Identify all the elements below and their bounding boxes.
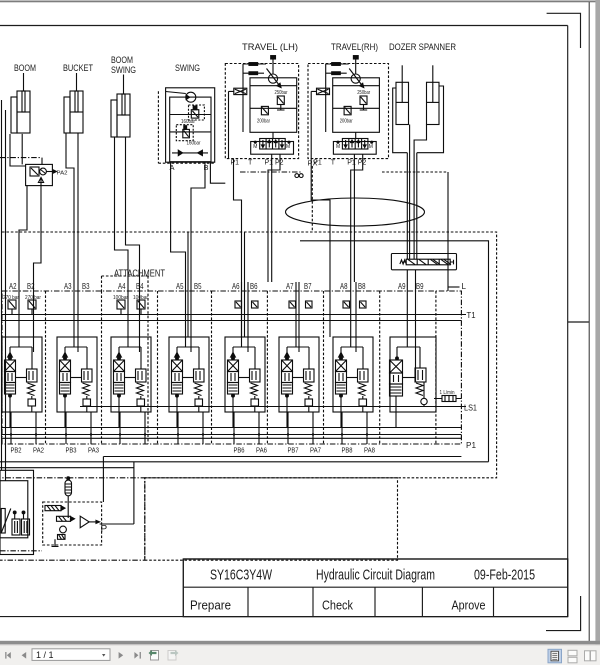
pilot line filter with arrow xyxy=(80,516,99,528)
svg-text:PA6: PA6 xyxy=(256,446,267,455)
parallel feed gallery xyxy=(2,320,461,322)
wire: bucket rod-side to A3 xyxy=(66,133,74,282)
svg-text:A3: A3 xyxy=(64,282,72,291)
svg-text:L: L xyxy=(462,282,467,291)
pilot accumulator capsule xyxy=(65,477,72,518)
boom cylinder xyxy=(11,73,30,133)
valve section 6 pilot drop lines xyxy=(234,412,259,444)
svg-text:P1: P1 xyxy=(466,441,477,450)
valve section 8 pilot drop lines xyxy=(342,412,367,444)
svg-text:PA2: PA2 xyxy=(33,446,44,455)
svg-text:B5: B5 xyxy=(194,282,202,291)
valve section 5 work-port drops xyxy=(186,282,192,352)
main pump outer box xyxy=(0,470,34,554)
wire: leak line L xyxy=(447,172,449,291)
svg-text:A9: A9 xyxy=(398,282,406,291)
anti-cavitation checks sections 6 7 8 xyxy=(235,301,258,308)
pilot strainer xyxy=(58,535,66,540)
valve section 3 work-port drops xyxy=(74,282,78,352)
valve section 7 body xyxy=(279,337,319,412)
valve section 6 spool xyxy=(228,347,256,428)
hydraulic tank ellipse xyxy=(286,198,425,226)
svg-text:PB3: PB3 xyxy=(66,446,77,455)
wire: spanner head-side port xyxy=(414,125,426,260)
valve section 6 body xyxy=(225,337,265,412)
tank return rail T1 xyxy=(2,314,466,316)
svg-text:200bar: 200bar xyxy=(257,119,270,125)
wire: pump outlet to valve bank xyxy=(100,462,134,524)
svg-text:LS1: LS1 xyxy=(464,404,478,413)
valve section 8 body xyxy=(333,337,373,412)
title block row divider xyxy=(183,586,567,588)
svg-text:B6: B6 xyxy=(250,282,258,291)
wire: bucket head-side to B3 xyxy=(77,133,79,282)
svg-text:P: P xyxy=(101,524,108,535)
valve section 9 spool xyxy=(390,347,421,428)
svg-text:PA7: PA7 xyxy=(310,446,321,455)
svg-text:PX: PX xyxy=(308,159,318,168)
wire: spanner rod-side port xyxy=(417,86,444,259)
wire: travel LH P1 to A7 xyxy=(271,154,273,282)
title block column dividers xyxy=(248,587,494,616)
wire: boom-swing head-side to B4 xyxy=(126,137,140,282)
valve section 9 compensator xyxy=(403,347,428,407)
valve section 3 compensator xyxy=(71,347,93,412)
valve section dashed dividers xyxy=(46,291,436,444)
valve bank solid boundary / pump pressure line xyxy=(300,241,489,462)
sheet inner frame top edge xyxy=(0,25,568,27)
wire: PX pilot dashed xyxy=(311,166,313,232)
valve section 2 compensator xyxy=(16,347,38,412)
valve section 4 work-port drops xyxy=(128,282,140,352)
wire: swing A to A5 xyxy=(171,162,186,282)
svg-text:250bar: 250bar xyxy=(357,90,370,96)
svg-text:M: M xyxy=(369,144,373,150)
main control valve dash-dot housing xyxy=(2,291,461,444)
valve section 5 body xyxy=(169,337,209,412)
toolbar continuous layout icon xyxy=(568,650,577,663)
sheet inner frame right edge xyxy=(567,26,569,617)
wire: pilot dash-dot stub xyxy=(0,550,42,552)
wire: swing B to B5 xyxy=(191,162,205,282)
svg-text:M: M xyxy=(286,144,290,150)
svg-text:T1: T1 xyxy=(467,311,477,320)
sheet zone tick right margin xyxy=(568,321,589,323)
wire: section 6 extra feed lines xyxy=(244,232,246,337)
valve section 8 compensator xyxy=(347,347,369,412)
svg-text:250bar: 250bar xyxy=(275,90,288,96)
wire: holding valve to B2 xyxy=(34,186,42,282)
svg-text:B8: B8 xyxy=(358,282,366,291)
toolbar prev-page button xyxy=(22,652,27,659)
valve section 2 work-port drops xyxy=(19,282,34,352)
svg-text:PB8: PB8 xyxy=(342,446,353,455)
svg-text:A6: A6 xyxy=(232,282,240,291)
wire: selector valve to section 9 xyxy=(407,270,415,382)
pilot piping dashed box xyxy=(145,478,398,560)
valve section 4 compensator xyxy=(125,347,147,412)
svg-text:T: T xyxy=(248,160,253,167)
wire: travel RH P1 to A8 xyxy=(353,154,355,282)
wire: boom-swing rod-side to A4 xyxy=(115,137,129,282)
toolbar first-page button xyxy=(5,652,11,659)
wire: bank bottom rail full width xyxy=(0,461,489,463)
valve section 8 work-port drops xyxy=(351,282,356,352)
center joint ports xyxy=(295,174,299,178)
wire: dozer head-side port xyxy=(409,125,411,260)
pilot gear pump xyxy=(60,526,67,533)
pump cartridge 2 xyxy=(22,511,30,535)
wire: travel RH P2 to B8 xyxy=(351,154,363,282)
svg-text:A8: A8 xyxy=(340,282,348,291)
svg-text:BUCKET: BUCKET xyxy=(63,63,93,74)
svg-text:TRAVEL (LH): TRAVEL (LH) xyxy=(242,42,298,53)
valve section 8 spool xyxy=(336,347,364,428)
svg-text:A4: A4 xyxy=(118,282,126,291)
valve section 4 spool xyxy=(114,347,142,428)
svg-text:T: T xyxy=(331,160,336,167)
toolbar previous-view icon xyxy=(149,650,159,660)
boom holding valve xyxy=(26,164,57,185)
svg-text:TRAVEL(RH): TRAVEL(RH) xyxy=(331,42,378,53)
svg-text:160bar: 160bar xyxy=(181,119,195,125)
svg-text:160bar: 160bar xyxy=(187,141,201,147)
svg-text:PA3: PA3 xyxy=(88,446,99,455)
svg-text:PA2: PA2 xyxy=(57,171,68,177)
wire: dozer rod-side port xyxy=(393,88,408,153)
valve section 3 spool xyxy=(60,347,88,428)
toolbar background xyxy=(0,644,600,665)
wire: travel LH P2 to B7 xyxy=(268,154,280,282)
svg-text:P2: P2 xyxy=(358,160,367,167)
toolbar next-view icon (disabled) xyxy=(168,650,179,660)
viewer right page-edge line xyxy=(589,2,590,641)
svg-text:B9: B9 xyxy=(416,282,424,291)
wire: swing drain to travel xyxy=(210,162,225,184)
load sense rail LS1 xyxy=(80,406,466,408)
svg-text:P2: P2 xyxy=(275,160,284,167)
wire: left margin line 2 xyxy=(5,110,7,481)
svg-text:A5: A5 xyxy=(176,282,184,291)
toolbar single-page layout icon (active) xyxy=(548,649,562,663)
valve bank outer dashed boundary xyxy=(2,232,497,478)
dozer cylinder xyxy=(396,65,409,124)
toolbar facing-pages layout icon xyxy=(585,651,597,661)
wire: return rail above pump xyxy=(103,457,461,503)
viewer top border line xyxy=(0,1,600,3)
pump cartridge 1 xyxy=(12,511,20,535)
valve section 7 work-port drops xyxy=(296,282,299,352)
wire: short return to pump xyxy=(0,467,134,469)
svg-text:A2: A2 xyxy=(9,282,17,291)
bucket cylinder xyxy=(64,73,83,133)
wire: travel LH left P1 drain xyxy=(234,159,242,337)
title block outline xyxy=(183,559,567,617)
svg-text:P1: P1 xyxy=(231,160,240,167)
valve section 5 compensator xyxy=(183,347,205,412)
main pump swash plate xyxy=(1,509,11,534)
pilot relief valve 1 xyxy=(45,506,65,511)
valve section 4 body xyxy=(111,337,151,412)
svg-text:M: M xyxy=(253,144,257,150)
valve section 3 pilot drop lines xyxy=(66,412,91,444)
wire: travel return dash-dot xyxy=(240,171,302,173)
svg-text:PB2: PB2 xyxy=(11,446,22,455)
viewer bottom page shadow band xyxy=(0,641,600,645)
wire: swing extra pilot line xyxy=(187,232,189,337)
svg-text:M: M xyxy=(336,144,340,150)
sheet corner mark bottom-right xyxy=(546,596,581,631)
valve section 7 compensator xyxy=(293,347,315,412)
wire: left margin line 1 xyxy=(1,100,3,470)
svg-text:PB7: PB7 xyxy=(288,446,299,455)
tank rail lower xyxy=(2,427,461,429)
valve section 7 spool xyxy=(282,347,310,428)
tank symbol xyxy=(52,539,59,546)
svg-text:PA8: PA8 xyxy=(364,446,375,455)
boom-swing cylinder xyxy=(111,75,130,138)
svg-text:B3: B3 xyxy=(82,282,90,291)
toolbar last-page button xyxy=(134,652,141,659)
svg-text:SWING: SWING xyxy=(111,65,136,76)
valve section 6 work-port drops xyxy=(242,282,249,352)
swing motor block xyxy=(158,88,214,163)
svg-text:1 / 1: 1 / 1 xyxy=(36,650,54,660)
wire: dozer bundle line 1 xyxy=(406,153,408,260)
svg-text:A7: A7 xyxy=(286,282,294,291)
wire: L stub xyxy=(448,286,460,288)
svg-text:PB6: PB6 xyxy=(234,446,245,455)
viewer right window band xyxy=(595,0,600,646)
travel-RH motor block xyxy=(308,56,389,159)
pilot rail xyxy=(2,437,461,439)
pump group dash-dot box xyxy=(0,478,145,560)
title block outline redraw (z-order) xyxy=(183,559,567,617)
travel-LH motor block xyxy=(225,56,298,159)
pressure rail P xyxy=(2,434,461,436)
attachment section dashed box xyxy=(102,276,149,444)
wire: boom cylinder head-side to holding valve xyxy=(21,134,23,165)
valve section 3 body xyxy=(57,337,97,412)
spanner cylinder xyxy=(427,65,440,124)
sheet corner mark top-right xyxy=(547,13,581,48)
svg-text:DOZER SPANNER: DOZER SPANNER xyxy=(389,42,456,53)
valve section 4 pilot drop lines xyxy=(120,412,145,444)
svg-text:B: B xyxy=(204,163,209,172)
toolbar next-page button xyxy=(119,652,124,659)
wire: travel RH left port drain xyxy=(311,159,330,337)
valve section 2 pilot drop lines xyxy=(11,412,36,444)
pilot selector valve xyxy=(391,254,456,270)
main pump inner box xyxy=(0,481,28,538)
valve section 7 pilot drop lines xyxy=(288,412,313,444)
pilot dash-dot line to holding valve xyxy=(0,157,40,159)
wire: boom cylinder rod-side to holding valve xyxy=(10,134,26,166)
valve section 5 pilot drop lines xyxy=(178,412,203,444)
wire: holding valve to A2 xyxy=(19,186,27,282)
valve section 2 body xyxy=(2,337,42,412)
valve section 9 body xyxy=(390,337,436,412)
valve section 2 spool xyxy=(5,347,33,428)
pilot relief valve 2 xyxy=(57,516,75,521)
sheet inner frame bottom edge xyxy=(0,616,568,618)
pilot subgroup dashed box xyxy=(43,502,102,545)
svg-text:BOOM: BOOM xyxy=(14,63,36,74)
valve section 5 spool xyxy=(172,347,200,428)
valve section 6 compensator xyxy=(239,347,261,412)
svg-text:200bar: 200bar xyxy=(340,119,353,125)
svg-text:SWING: SWING xyxy=(175,63,200,74)
toolbar page-number box xyxy=(32,649,110,661)
svg-text:B7: B7 xyxy=(304,282,312,291)
